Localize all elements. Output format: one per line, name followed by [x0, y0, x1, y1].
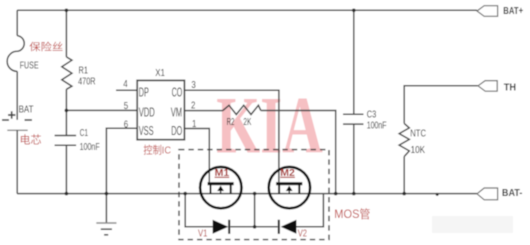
svg-text:BAT-: BAT-: [502, 187, 522, 199]
wire R1 top: [65, 10, 67, 57]
diode V1: [213, 220, 231, 234]
battery BAT plates: [2, 119, 9, 121]
capacitor C3 plates: [343, 113, 364, 115]
resistor R1 470R zigzag: [62, 57, 72, 89]
svg-text:470R: 470R: [78, 75, 95, 86]
svg-text:保险丝: 保险丝: [29, 40, 63, 53]
svg-text:100nF: 100nF: [80, 141, 100, 153]
ground: [96, 223, 116, 235]
wire DO pin1: [185, 129, 210, 183]
svg-text:2: 2: [191, 100, 195, 111]
node VM rail: [334, 192, 338, 196]
svg-text:X1: X1: [155, 67, 165, 78]
MOS dashed box: [179, 150, 329, 240]
svg-text:10K: 10K: [411, 144, 425, 155]
wire C3 to bottom rail: [353, 124, 355, 194]
svg-text:M2: M2: [280, 167, 295, 179]
wire bottom rail: [17, 193, 477, 195]
wire fuse top vertical: [16, 10, 18, 35]
capacitor C1 plates: [55, 135, 77, 137]
wire VM pin2 to R2: [185, 110, 223, 112]
wire fuse to battery: [16, 71, 18, 119]
svg-text:VM: VM: [171, 105, 182, 120]
node junction dots: [65, 9, 439, 229]
svg-text:2K: 2K: [243, 115, 251, 127]
svg-text:控制IC: 控制IC: [143, 143, 171, 157]
label texts: [19, 59, 427, 155]
node C3 top rail: [352, 9, 356, 13]
wire diode row segments: [230, 226, 277, 228]
svg-text:BAT+: BAT+: [503, 5, 523, 16]
resistor NTC 10K zigzag: [399, 123, 409, 156]
wire diode row mid drop: [254, 194, 256, 227]
wire NTC to bottom rail: [403, 157, 405, 194]
svg-text:4: 4: [123, 78, 127, 89]
wire C1 to bottom rail: [65, 145, 67, 193]
svg-text:M1: M1: [215, 167, 230, 179]
node diode mid: [253, 225, 257, 229]
wire ground drop: [105, 194, 107, 223]
svg-text:VDD: VDD: [139, 105, 155, 120]
wire C3 top drop: [353, 10, 355, 114]
wire top rail BAT+: [17, 9, 477, 11]
wire CO pin3: [185, 90, 279, 182]
wire R1 to VDD node: [65, 89, 67, 135]
svg-text:C3: C3: [367, 108, 377, 119]
pin name labels: [139, 85, 183, 138]
node ground rail: [105, 192, 109, 196]
terminal tag BAT+: [477, 6, 498, 17]
svg-text:FUSE: FUSE: [20, 59, 39, 71]
node C1 bottom: [65, 192, 69, 196]
terminal tag TH: [478, 81, 497, 92]
svg-text:DP: DP: [139, 85, 149, 100]
terminal tag BAT-: [477, 188, 498, 200]
svg-text:CO: CO: [172, 87, 183, 101]
svg-text:VSS: VSS: [139, 124, 154, 139]
svg-text:DO: DO: [171, 124, 182, 139]
svg-text:TH: TH: [504, 82, 516, 94]
svg-text:BAT: BAT: [19, 104, 34, 115]
svg-text:6: 6: [124, 119, 128, 130]
watermark gray patch bottom right: [432, 216, 513, 233]
svg-text:V1: V1: [198, 228, 207, 239]
svg-text:100nF: 100nF: [367, 119, 387, 131]
wire diode row right drop: [296, 194, 323, 227]
svg-text:1: 1: [192, 118, 196, 129]
wire VDD pin5: [66, 109, 136, 111]
svg-text:3: 3: [191, 79, 195, 90]
node rail nub: [436, 193, 439, 196]
wire TH horizontal: [404, 86, 478, 124]
svg-text:R1: R1: [79, 64, 89, 75]
svg-text:电芯: 电芯: [20, 133, 42, 147]
transistor M1: [200, 167, 241, 209]
wire DP pin4 stub: [116, 89, 137, 91]
red chinese labels: [20, 40, 371, 239]
wire diode row left drop: [185, 194, 213, 227]
wire VSS pin6: [106, 128, 136, 193]
battery plus sign: [8, 114, 15, 116]
svg-text:MOS管: MOS管: [334, 207, 370, 221]
resistor R2 2K zigzag: [223, 105, 261, 114]
node VDD junction: [65, 109, 69, 113]
op-amp/IC X1 body: [137, 80, 184, 139]
wire battery to bottom rail: [16, 130, 18, 193]
svg-text:NTC: NTC: [410, 128, 426, 139]
svg-text:R2: R2: [227, 115, 235, 127]
svg-text:C1: C1: [80, 127, 89, 139]
node C3 rail: [352, 192, 356, 196]
diode V2: [278, 220, 297, 234]
node FET mid tap: [253, 192, 257, 196]
node R1 top rail: [65, 9, 69, 13]
node diode left top: [183, 192, 187, 196]
node NTC rail: [402, 192, 406, 196]
fuse FUSE body: [7, 36, 24, 72]
svg-text:V2: V2: [298, 227, 307, 238]
wire R2 to VM drop: [261, 111, 336, 194]
transistor M2: [269, 167, 310, 209]
svg-text:5: 5: [124, 100, 128, 111]
